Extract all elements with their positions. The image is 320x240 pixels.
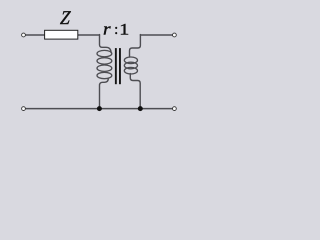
wire top-left from terminal to impedance box	[24, 34, 100, 36]
terminal bottom-right	[173, 107, 177, 111]
svg-text::: :	[114, 22, 118, 38]
wire primary bottom lead	[100, 79, 109, 109]
terminal bottom-left	[22, 107, 26, 111]
wire secondary bottom lead	[130, 74, 140, 109]
wire primary top lead	[100, 35, 112, 53]
label r : 1	[103, 20, 129, 39]
inductor L1 primary winding (4 loops)	[97, 50, 112, 78]
wire top-right from transformer to right terminal	[140, 34, 174, 36]
wire bottom rail	[24, 108, 175, 110]
terminal top-left	[22, 33, 26, 37]
svg-text:r: r	[103, 20, 111, 39]
transformer core (two bars)	[116, 48, 120, 84]
inductor L2 secondary winding (3 loops)	[124, 57, 137, 74]
terminal top-right	[173, 33, 177, 37]
wire secondary top lead	[130, 35, 141, 57]
impedance Z box	[45, 30, 78, 39]
junction dot right	[138, 106, 143, 111]
junction dot left	[97, 106, 102, 111]
svg-text:1: 1	[119, 20, 129, 38]
